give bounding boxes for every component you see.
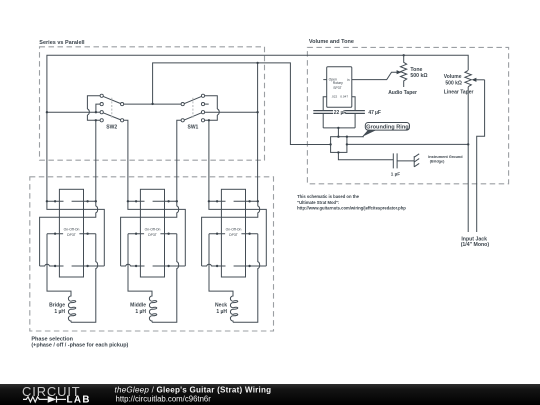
svg-text:"Ultimate Strat Mod":: "Ultimate Strat Mod": xyxy=(297,200,339,205)
svg-text:DP3T: DP3T xyxy=(67,233,76,237)
svg-text:Rotary: Rotary xyxy=(333,81,343,85)
svg-text:On-Off-On: On-Off-On xyxy=(64,228,80,232)
svg-text:SW2: SW2 xyxy=(106,125,117,131)
svg-text:Audio Taper: Audio Taper xyxy=(388,90,417,96)
svg-text:47 µF: 47 µF xyxy=(368,110,380,116)
svg-text:Middle: Middle xyxy=(130,303,146,309)
svg-text:Tone: Tone xyxy=(410,67,422,73)
svg-text:1 µH: 1 µH xyxy=(216,309,227,315)
svg-text:500 kΩ: 500 kΩ xyxy=(445,81,462,87)
svg-text:.022: .022 xyxy=(331,94,337,98)
svg-text:theGleep / Gleep's Guitar (Str: theGleep / Gleep's Guitar (Strat) Wiring xyxy=(115,385,272,394)
svg-text:500 kΩ: 500 kΩ xyxy=(410,73,427,79)
svg-text:(1/4" Mono): (1/4" Mono) xyxy=(461,242,490,248)
svg-text:1 µH: 1 µH xyxy=(54,309,65,315)
svg-text:Series vs Paralell: Series vs Paralell xyxy=(39,40,85,46)
svg-text:Volume: Volume xyxy=(444,74,462,80)
svg-text:Neck: Neck xyxy=(215,303,227,309)
svg-text:(Bridge): (Bridge) xyxy=(430,160,445,164)
svg-text:Phase selection: Phase selection xyxy=(31,336,73,342)
svg-text:Instrument Ground: Instrument Ground xyxy=(428,155,463,159)
svg-text:SP3T: SP3T xyxy=(333,86,341,90)
svg-text:Linear Taper: Linear Taper xyxy=(444,89,474,95)
svg-text:0.047: 0.047 xyxy=(340,94,348,98)
svg-text:Volume and Tone: Volume and Tone xyxy=(309,39,354,45)
svg-text:1 µH: 1 µH xyxy=(135,309,146,315)
svg-text:Bridge: Bridge xyxy=(49,303,65,309)
svg-text:in: in xyxy=(347,78,350,82)
svg-text:LAB: LAB xyxy=(67,395,91,405)
svg-text:This schematic is based on the: This schematic is based on the xyxy=(297,194,360,199)
svg-text:http://www.guitarnuts.com/wiri: http://www.guitarnuts.com/wiring/jeffcit… xyxy=(297,206,406,211)
svg-text:http://circuitlab.com/c96tn6r: http://circuitlab.com/c96tn6r xyxy=(116,394,212,403)
svg-text:22 µF: 22 µF xyxy=(334,110,346,116)
svg-text:SW1: SW1 xyxy=(188,125,199,131)
svg-text:Grounding Ring: Grounding Ring xyxy=(366,125,409,131)
svg-text:1 µF: 1 µF xyxy=(391,171,400,176)
svg-text:(+phase / off / -phase for eac: (+phase / off / -phase for each pickup) xyxy=(31,343,128,349)
